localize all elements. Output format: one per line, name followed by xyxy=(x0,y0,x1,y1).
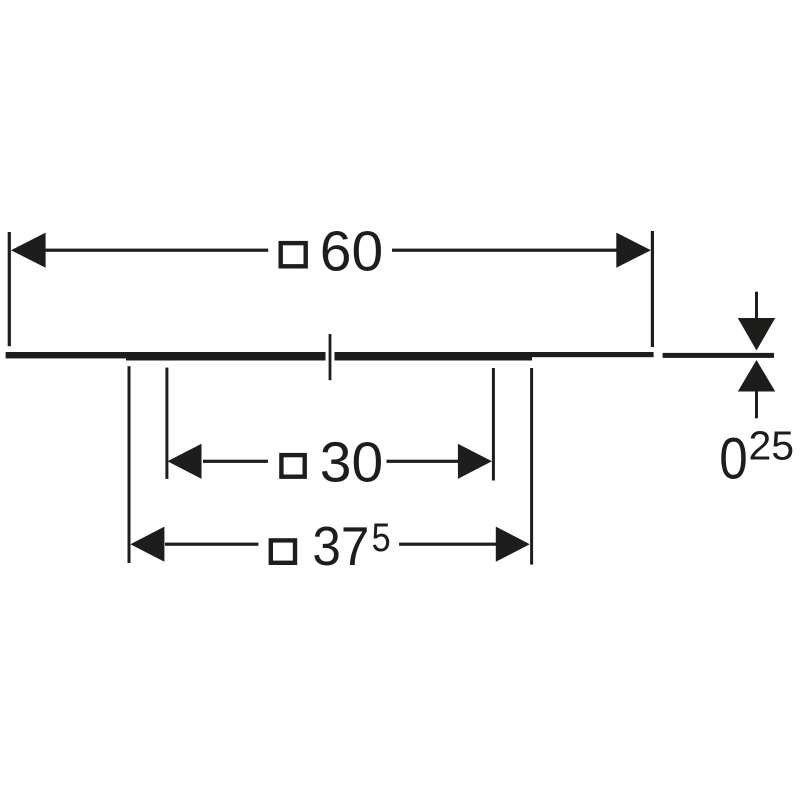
svg-text:25: 25 xyxy=(749,423,795,469)
dim 60: left extension line xyxy=(8,232,11,346)
cover plate (side view), left of break xyxy=(6,352,326,358)
dim 30: left extension line xyxy=(165,368,168,479)
dim 37.5: square symbol xyxy=(271,540,295,562)
cover plate underside lip xyxy=(126,356,532,361)
cover plate (side view), right of break xyxy=(335,352,654,358)
thickness superscript 25 xyxy=(749,423,795,469)
svg-text:0: 0 xyxy=(719,427,748,492)
dim 30: square symbol xyxy=(281,455,304,477)
dim 30: dimension line left segment xyxy=(203,460,268,463)
dim 60: dimension line left segment xyxy=(44,249,268,252)
dim 60: dimension line right segment xyxy=(392,249,617,252)
dim 30: left arrowhead xyxy=(168,444,202,479)
dim 60: value label xyxy=(320,220,383,284)
dim 37.5: right arrowhead xyxy=(496,527,530,562)
svg-text:37: 37 xyxy=(312,515,369,577)
dim 60: right arrowhead xyxy=(616,233,651,268)
svg-text:60: 60 xyxy=(320,220,383,284)
dim 37.5: dimension line right segment xyxy=(399,543,496,546)
svg-text:30: 30 xyxy=(320,431,383,495)
dim 30: value label xyxy=(320,431,383,495)
dim 60: left arrowhead xyxy=(11,233,46,268)
dim 37.5: value label 37 xyxy=(312,515,369,577)
dim 37.5: superscript 5 xyxy=(372,516,391,560)
dim 37.5: left arrowhead xyxy=(130,527,164,562)
dim 37.5: left extension line xyxy=(128,366,131,563)
thickness value label 0 xyxy=(719,427,748,492)
centre break tick xyxy=(329,334,332,380)
dim 30: dimension line right segment xyxy=(387,460,459,463)
thickness dim: lower arrowhead (points up) xyxy=(738,360,775,392)
thickness dim: lower stub line xyxy=(755,390,758,418)
dim 37.5: dimension line left segment xyxy=(165,543,258,546)
dim 30: right extension line xyxy=(492,368,495,481)
dim 37.5: right extension line xyxy=(530,368,533,565)
thickness dim: upper arrowhead (points down) xyxy=(738,318,775,351)
svg-text:5: 5 xyxy=(372,516,391,560)
thickness dim: upper stub line xyxy=(755,292,758,326)
thickness reference line xyxy=(663,353,774,358)
dim 30: right arrowhead xyxy=(458,444,492,479)
dim 60: right extension line xyxy=(651,231,654,347)
dim 60: square symbol xyxy=(281,243,306,266)
